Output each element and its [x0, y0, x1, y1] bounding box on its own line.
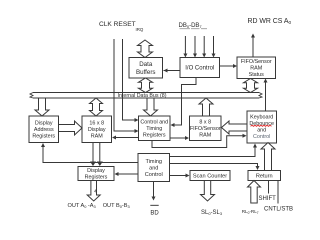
double arrow bus - Display RAM [90, 98, 103, 116]
wire Timing Control to Scan Counter [170, 175, 188, 177]
svg-text:BD: BD [150, 210, 159, 216]
wire RESET to Control and Timing Registers [123, 39, 137, 120]
svg-text:SHIFT: SHIFT [259, 196, 277, 202]
svg-text:Display: Display [87, 168, 105, 174]
block Keyboard Debounce and Control [247, 111, 277, 143]
svg-text:Display: Display [88, 127, 106, 133]
svg-text:Status: Status [249, 72, 265, 78]
block Timing and Control [138, 154, 170, 182]
wire CNTL/STB input [277, 181, 279, 204]
svg-text:RD WR CS A0: RD WR CS A0 [248, 18, 292, 26]
double arrow FIFO status - bus [244, 79, 258, 93]
svg-text:I/O Control: I/O Control [185, 66, 214, 72]
svg-text:Registers: Registers [143, 133, 166, 139]
svg-text:Address: Address [34, 127, 54, 133]
svg-text:RL0-RL7: RL0-RL7 [242, 209, 259, 215]
wire Display RAM to Display Registers 2 [99, 143, 101, 164]
svg-text:Control: Control [253, 134, 270, 140]
block Display Address Registers [29, 116, 59, 143]
wire Keyboard Debounce to FIFO status [265, 81, 267, 111]
svg-text:Internal Data Bus (8): Internal Data Bus (8) [118, 93, 167, 99]
svg-text:and: and [149, 165, 158, 171]
block Scan Counter [190, 171, 230, 181]
arrow return lines RL to Return [248, 181, 261, 204]
underline marks under DB0-DB7 [180, 28, 208, 30]
svg-text:FIFO/Sensor: FIFO/Sensor [241, 59, 272, 65]
arrow FIFO Sensor RAM to bus [199, 98, 213, 116]
wires DB0-DB7 into I/O Control [184, 36, 186, 55]
svg-text:8 x 8: 8 x 8 [199, 120, 211, 126]
svg-text:IRQ: IRQ [136, 27, 144, 32]
arrow Scan Counter to scan lines [201, 181, 215, 202]
arrow Keyboard Debounce to FIFO Sensor RAM [222, 121, 248, 134]
svg-text:Keyboard: Keyboard [250, 115, 273, 121]
svg-text:Data: Data [139, 61, 153, 68]
wire Timing Control to BD output [153, 182, 155, 198]
svg-text:DB0-DB7: DB0-DB7 [179, 23, 203, 29]
arrow bus to Control and Timing Registers [144, 98, 158, 116]
svg-text:and: and [257, 127, 266, 133]
wire I/O Control to FIFO status [220, 65, 235, 67]
wire Timing Control to Display Registers [117, 173, 138, 175]
wire CLK to Control and Timing Registers [114, 39, 137, 131]
svg-text:Buffers: Buffers [136, 69, 156, 76]
svg-text:Control: Control [145, 172, 163, 178]
svg-text:Scan Counter: Scan Counter [193, 173, 227, 179]
wire SHIFT input [268, 181, 270, 194]
double arrow Data Buffers - bus [139, 78, 153, 93]
svg-text:RAM: RAM [199, 133, 211, 139]
svg-text:Return: Return [256, 173, 273, 179]
wire Control Timing Registers to Display RAM [115, 137, 139, 139]
block Data Buffers [129, 58, 163, 79]
block Display Registers [78, 167, 114, 181]
svg-text:OUT B0-B3: OUT B0-B3 [103, 203, 130, 209]
svg-text:CNTL/STB: CNTL/STB [264, 207, 293, 213]
block FIFO/Sensor RAM Status [237, 57, 276, 79]
svg-text:4: 4 [94, 189, 97, 195]
svg-text:Registers: Registers [32, 134, 55, 140]
wire I/O Control to Data Buffers [164, 70, 180, 72]
wire Control Timing Registers to Keyboard Debounce [152, 136, 245, 148]
arrow Display Address Registers to Display RAM [59, 121, 83, 135]
label BD with overline [150, 204, 158, 206]
arrow Display Registers outputs [87, 181, 100, 202]
svg-text:OUT A0 -A3: OUT A0 -A3 [68, 203, 96, 209]
svg-text:Timing: Timing [146, 126, 162, 132]
svg-text:RAM: RAM [91, 134, 103, 140]
wire Timing Control to Return [170, 164, 258, 168]
block 16 x 8 Display RAM [82, 116, 112, 143]
svg-text:CLK RESET: CLK RESET [99, 21, 136, 28]
wire Timing Control to Display Address Registers [43, 146, 138, 163]
internal data bus (8) [33, 93, 259, 99]
wire FIFO status to RD WR CS A0 [252, 36, 254, 57]
wire Timing Control to Keyboard Debounce bottom [170, 146, 256, 157]
block Return [248, 171, 281, 181]
block I/O Control [180, 58, 220, 78]
IRQ double arrow to Data Buffers [138, 40, 153, 58]
block 8 x 8 FIFO/Sensor RAM [190, 116, 222, 141]
wire I/O Control to Control and Timing Registers [173, 78, 197, 126]
svg-text:FIFO/Sensor: FIFO/Sensor [190, 126, 221, 132]
svg-text:16 x 8: 16 x 8 [89, 121, 104, 127]
svg-text:RAM: RAM [250, 66, 262, 72]
svg-text:Control and: Control and [140, 120, 168, 126]
arrow bus to Display Address Registers [35, 98, 49, 116]
arrow Return to Keyboard Debounce [261, 143, 275, 171]
svg-text:Registers: Registers [85, 175, 108, 181]
block Control and Timing Registers [139, 116, 171, 141]
svg-text:SL0-SL3: SL0-SL3 [201, 210, 222, 216]
svg-text:Timing: Timing [145, 159, 162, 165]
wire Display RAM to Display Registers [92, 143, 94, 164]
svg-text:Display: Display [35, 121, 53, 127]
wire Control Timing Registers to FIFO Sensor RAM [170, 137, 187, 139]
